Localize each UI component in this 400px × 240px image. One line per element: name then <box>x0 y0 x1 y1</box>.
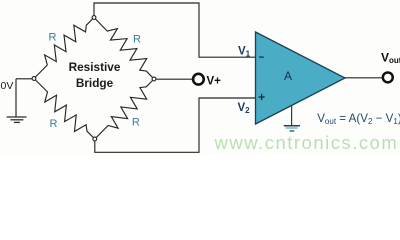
terminal Vout <box>383 72 393 82</box>
svg-text:Bridge: Bridge <box>76 76 114 90</box>
node left <box>32 77 36 81</box>
svg-text:R: R <box>50 118 58 130</box>
wire: ground stem at 0V <box>15 79 17 117</box>
wire: right node to V+ terminal <box>156 78 193 80</box>
terminal V+ <box>193 74 204 85</box>
svg-text:www.cntronics.com: www.cntronics.com <box>214 132 399 153</box>
svg-text:A: A <box>284 69 292 83</box>
op-amp U1 <box>256 32 346 124</box>
resistor R2 (top-right arm) <box>94 18 154 80</box>
op-amp ground symbol <box>284 105 300 131</box>
resistor R4 (bottom-right arm) <box>95 79 154 139</box>
node right <box>152 77 156 81</box>
svg-text:0V: 0V <box>1 80 14 92</box>
wire: 0V terminal to left bridge node <box>16 78 32 80</box>
wire: op-amp output <box>345 77 383 79</box>
svg-text:R: R <box>133 34 141 46</box>
inverting input minus sign <box>259 56 264 58</box>
svg-text:V+: V+ <box>207 75 222 87</box>
non-inverting input plus sign <box>259 94 265 100</box>
svg-text:Resistive: Resistive <box>69 60 121 74</box>
node top <box>92 16 96 20</box>
ground (0V) <box>7 117 27 122</box>
resistor R1 (top-left arm) <box>34 18 94 79</box>
svg-text:R: R <box>132 116 140 128</box>
svg-text:R: R <box>49 32 57 44</box>
wire: top node to V1 input of op-amp <box>94 3 255 57</box>
wire: bottom node to V2 input of op-amp <box>95 98 255 152</box>
resistor R3 (bottom-left arm) <box>34 79 95 140</box>
node bottom <box>93 137 97 141</box>
